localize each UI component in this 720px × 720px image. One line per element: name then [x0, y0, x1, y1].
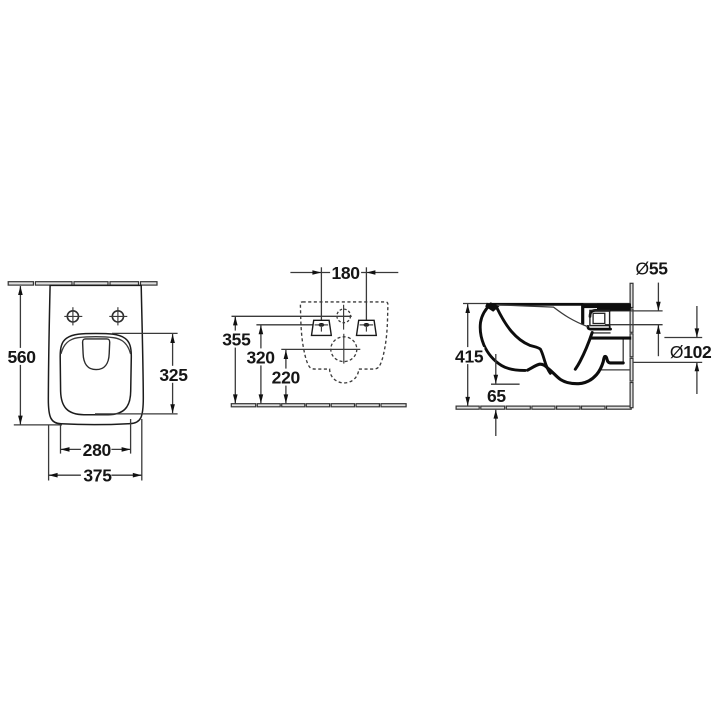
svg-text:Ø102: Ø102: [670, 342, 712, 362]
svg-text:320: 320: [246, 347, 275, 367]
svg-text:280: 280: [83, 440, 112, 460]
svg-text:560: 560: [7, 347, 36, 367]
svg-text:65: 65: [487, 386, 506, 406]
svg-text:Ø55: Ø55: [636, 258, 669, 278]
svg-text:325: 325: [159, 365, 188, 385]
svg-text:220: 220: [272, 368, 301, 388]
svg-text:415: 415: [455, 347, 484, 367]
svg-text:375: 375: [83, 466, 112, 486]
svg-text:180: 180: [331, 263, 360, 283]
